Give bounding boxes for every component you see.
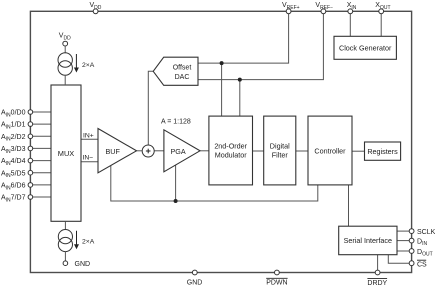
2nd-order modulator block [209, 116, 253, 185]
pin AIN7/D7 [1, 195, 33, 204]
wire lower current source to GND terminal [64, 251, 66, 261]
pin AIN3/D3 [1, 146, 33, 155]
wire VDD terminal to current source [64, 46, 66, 53]
pin VREF- [315, 2, 333, 14]
wire PGA bottom to control bus [175, 165, 177, 201]
offset DAC U-dac [153, 57, 198, 85]
svg-text:A = 1:128: A = 1:128 [161, 118, 191, 125]
svg-text:2×A: 2×A [82, 62, 95, 69]
wire MUX bottom to lower current source [64, 221, 66, 229]
svg-text:Modulator: Modulator [215, 150, 248, 159]
svg-text:GND: GND [187, 280, 203, 286]
pin AIN0/D0 wire [33, 111, 51, 113]
pin VREF+ [282, 2, 300, 14]
pin DIN [409, 238, 427, 247]
svg-text:Clock Generator: Clock Generator [339, 43, 392, 52]
pin AIN1/D1 wire [33, 123, 51, 125]
wire VREF- branch down to modulator [239, 80, 241, 117]
pin AIN0/D0 [1, 110, 33, 119]
wire XIN pin to clock generator [349, 14, 351, 37]
current source 2xA bottom (burnout detect) [58, 230, 94, 252]
wire current source to MUX top [64, 75, 66, 85]
svg-text:2×A: 2×A [82, 238, 95, 245]
pin PDWN [266, 270, 287, 286]
pin AIN3/D3 wire [33, 147, 51, 149]
svg-text:BUF: BUF [106, 147, 121, 156]
svg-text:Controller: Controller [314, 147, 346, 156]
svg-text:IN+: IN+ [83, 132, 94, 139]
MUX U-mux [51, 85, 81, 221]
wire IN- MUX to BUF [81, 161, 98, 163]
wire serial interface to CS pin [388, 255, 409, 264]
svg-text:IN−: IN− [83, 155, 94, 162]
current source 2xA top (burnout detect) [58, 53, 95, 75]
controller block [308, 116, 352, 185]
pin AIN7/D7 wire [33, 196, 51, 198]
svg-text:MUX: MUX [58, 149, 74, 158]
wire offset DAC output+ to VREF+ pin [198, 14, 289, 64]
svg-text:CS: CS [417, 261, 427, 268]
wire IN+ MUX to BUF [81, 138, 98, 140]
clock generator block [334, 36, 396, 59]
wire offset DAC point to summing node [148, 71, 153, 145]
wire serial interface to DIN pin [397, 240, 409, 242]
svg-text:DAC: DAC [175, 74, 190, 81]
wire PGA to modulator [200, 150, 209, 152]
wire serial interface to DOUT pin [397, 250, 409, 252]
svg-text:SCLK: SCLK [417, 229, 435, 236]
ground terminal GND [63, 261, 90, 268]
wire VREF+ branch down to modulator [221, 63, 223, 116]
pin AIN2/D2 [1, 134, 33, 143]
pin XOUT [375, 2, 390, 14]
wire offset DAC output- to VREF- pin [198, 14, 323, 80]
junction VREF- branch [238, 78, 242, 82]
chip outer border [30, 11, 411, 272]
svg-text:DRDY: DRDY [367, 280, 387, 286]
pin DRDY [367, 270, 387, 286]
pin AIN4/D4 [1, 158, 33, 167]
pin AIN5/D5 wire [33, 172, 51, 174]
svg-text:Offset: Offset [173, 64, 192, 71]
pin DOUT [409, 249, 432, 258]
wire controller to registers [352, 150, 365, 152]
pin AIN6/D6 wire [33, 184, 51, 186]
wire XOUT pin to clock generator [380, 14, 382, 37]
pin XIN [347, 2, 357, 14]
amplifier PGA [164, 130, 200, 172]
summing node [142, 145, 154, 157]
svg-text:GND: GND [75, 261, 91, 268]
buffer BUF [98, 129, 137, 173]
wire serial interface to SCLK pin [397, 230, 409, 232]
junction VREF+ branch [220, 61, 224, 65]
wire controller to serial interface [348, 185, 350, 226]
wire modulator to digital filter [253, 150, 264, 152]
serial interface block [339, 226, 397, 255]
wire control bus from controller bottom to BUF and PGA [111, 165, 318, 201]
internal VDD terminal for burnout current source [59, 33, 71, 46]
pin AIN4/D4 wire [33, 160, 51, 162]
pin AIN1/D1 [1, 122, 33, 131]
svg-text:2nd-Order: 2nd-Order [214, 142, 247, 151]
pin AIN6/D6 [1, 183, 33, 192]
pin GND bottom [187, 270, 203, 286]
junction control bus / PGA [174, 199, 178, 203]
wire serial interface to DRDY pin [377, 255, 379, 271]
digital filter block [264, 116, 296, 185]
wire digital filter to controller [296, 150, 308, 152]
pin AIN5/D5 [1, 170, 33, 179]
pin AIN2/D2 wire [33, 135, 51, 137]
svg-text:Digital: Digital [270, 142, 290, 151]
svg-text:Registers: Registers [367, 147, 398, 156]
pin SCLK [409, 229, 435, 236]
pin VDD top [90, 2, 102, 14]
svg-text:PDWN: PDWN [266, 280, 287, 286]
svg-text:Serial Interface: Serial Interface [344, 236, 392, 245]
registers block [365, 142, 401, 160]
svg-text:PGA: PGA [171, 147, 186, 156]
svg-text:Filter: Filter [272, 150, 289, 159]
pin CS [409, 260, 427, 268]
wire BUF to summing node [137, 150, 143, 152]
wire summing node to PGA [154, 150, 164, 152]
